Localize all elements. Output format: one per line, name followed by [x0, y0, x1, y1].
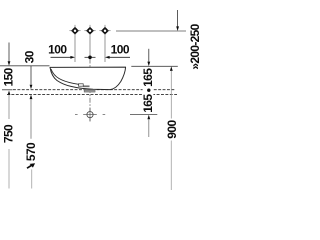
svg-text:30: 30 [22, 50, 36, 63]
svg-text:165: 165 [141, 94, 155, 113]
washbasin inner surface line [51, 69, 79, 84]
svg-text:150: 150 [2, 67, 16, 86]
svg-text:750: 750 [2, 124, 16, 143]
dimension 165 lower: arrow [147, 115, 150, 120]
dimension 165 upper: arrow [148, 49, 150, 62]
adjustable-dimension arrow glyph [27, 163, 35, 168]
svg-text:900: 900 [165, 120, 179, 139]
drain outlet mark: dash-dot axis [75, 114, 78, 116]
svg-text:165: 165 [141, 68, 155, 87]
wire: rim plane extension line right [131, 65, 178, 67]
dimension 100 left: line and arrow [51, 56, 72, 58]
washbasin overflow detail [78, 84, 83, 86]
drain flange [84, 89, 95, 92]
svg-text:100: 100 [111, 43, 130, 57]
dimension 750: upper arrow [8, 91, 11, 96]
counter bottom dashed line [7, 93, 177, 95]
svg-text:570: 570 [24, 142, 38, 161]
counter top dashed line [13, 89, 175, 91]
node: chain point on counter [147, 89, 150, 92]
dimension 150: upper arrow [8, 43, 10, 62]
tap fixing mark left [69, 25, 80, 37]
dimension 200-250: arrow line [177, 10, 179, 27]
wire: counter-top extension stub [2, 89, 13, 91]
svg-text:»200-250: »200-250 [188, 23, 200, 69]
dimension 570: arrow to counter bottom [30, 95, 33, 100]
drain outlet mark: circle and cross [87, 112, 93, 118]
wire: rim plane extension line left [0, 65, 50, 67]
label 165 upper [143, 68, 154, 114]
dimension 200-250: extension line [116, 30, 186, 32]
tap fixing mark right [99, 25, 110, 37]
wire: witness line from middle tap mark [89, 37, 91, 56]
wire: witness line from right tap mark [104, 37, 106, 63]
wire: witness line from left tap mark [74, 37, 76, 63]
node: center point of tap dimension [85, 56, 96, 58]
dimension 900: arrow [170, 66, 173, 71]
wire: drain height extension line [130, 114, 157, 116]
centerline (vertical axis through basin and drain) [89, 59, 91, 122]
washbasin outer shell [50, 67, 126, 90]
tap fixing mark middle [84, 25, 95, 37]
svg-text:100: 100 [48, 43, 67, 57]
dimension 100 right: line and arrow [109, 56, 130, 58]
dimension 30: arrow to counter top [30, 66, 32, 85]
